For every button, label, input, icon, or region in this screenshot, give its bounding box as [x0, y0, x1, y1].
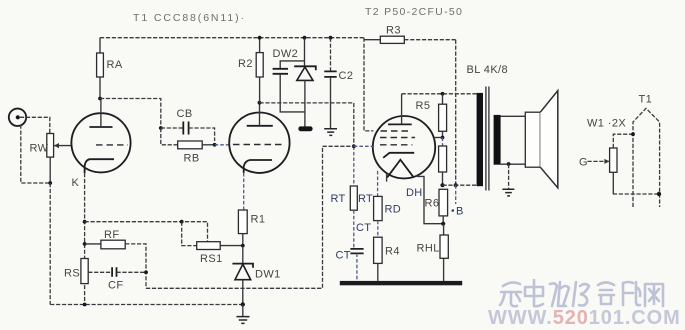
chassis rail	[340, 281, 462, 285]
wire cathode to RS1	[85, 222, 208, 242]
svg-text:BL 4K/8: BL 4K/8	[467, 64, 509, 76]
wire V3 plate to OPT primary	[402, 93, 477, 95]
wire B+ node to primary bottom	[443, 184, 477, 186]
wire B stub	[455, 185, 457, 204]
node B+	[440, 183, 444, 187]
zener DW2 with parallel cap	[273, 36, 316, 127]
svg-text:G: G	[579, 157, 588, 169]
resistor RB	[161, 128, 215, 165]
svg-text:R1: R1	[251, 214, 266, 226]
wire RS1 left lead	[182, 222, 197, 246]
resistor RF	[85, 229, 126, 249]
transformer core	[486, 87, 489, 191]
node V2 grid	[213, 143, 217, 147]
capacitor CF	[88, 267, 146, 291]
node K/RS1 branch	[83, 220, 87, 224]
svg-text:CT: CT	[356, 222, 371, 234]
wire g2 to divider	[434, 137, 443, 139]
heater winding T1	[633, 94, 660, 208]
svg-text:T1 CCC88(6N11)·: T1 CCC88(6N11)·	[133, 12, 246, 24]
B+ bus top	[100, 37, 364, 39]
ground C2	[324, 129, 337, 136]
svg-text:R4: R4	[385, 246, 400, 258]
node heater bottom	[657, 192, 661, 196]
resistor RA	[97, 38, 123, 99]
svg-text:DH: DH	[406, 187, 423, 199]
wire left riser to bottom rail	[49, 183, 51, 305]
svg-text:RS: RS	[64, 268, 80, 280]
svg-text:R2: R2	[238, 58, 253, 70]
resistor R5	[416, 94, 447, 138]
svg-text:K: K	[72, 177, 80, 189]
resistor R6	[425, 189, 448, 223]
input jack J1	[9, 109, 26, 126]
wire RW wiper to V1 grid	[54, 143, 72, 148]
resistor R3	[364, 25, 456, 44]
svg-text:CT: CT	[336, 250, 351, 262]
wire V1 anode to coupling	[100, 99, 161, 129]
svg-text:RF: RF	[104, 229, 119, 241]
node secondary ground	[507, 162, 511, 166]
svg-text:R6: R6	[425, 198, 440, 210]
resistor R2	[238, 36, 263, 103]
resistor R4	[374, 221, 400, 281]
ground main	[236, 305, 249, 324]
svg-text:T2 P50-2CFU-50: T2 P50-2CFU-50	[365, 6, 463, 18]
wire K cathode column	[84, 173, 86, 305]
svg-text:RB: RB	[184, 153, 200, 165]
svg-text:RW: RW	[30, 143, 49, 155]
wire grid entry	[354, 145, 373, 147]
label +B	[452, 206, 464, 218]
pentode V3 output tube	[373, 94, 443, 224]
wire heater bottom	[613, 193, 660, 195]
svg-text:B: B	[456, 206, 464, 218]
node RS1 left branch	[180, 220, 184, 224]
ground blob DW2	[298, 126, 312, 131]
wire secondary to speaker	[501, 116, 526, 164]
feedback wire to V3 grid	[146, 146, 354, 288]
wire jack ground side	[21, 125, 50, 183]
resistor RS1	[197, 242, 243, 265]
node main ground	[241, 302, 245, 306]
node plate line	[441, 92, 445, 96]
svg-text:R3: R3	[386, 25, 401, 37]
wire screen feed from bus	[364, 38, 373, 131]
svg-text:W1 ·2X: W1 ·2X	[587, 118, 626, 130]
capacitor CB	[161, 108, 215, 141]
svg-text:CF: CF	[108, 280, 123, 292]
node RW/ground	[48, 181, 52, 185]
node cathode/R6	[441, 222, 445, 226]
watermark calligraphy	[500, 280, 663, 306]
svg-text:RA: RA	[107, 59, 123, 71]
node V2 anode	[258, 101, 262, 105]
node R1/DW1	[241, 244, 245, 248]
svg-text:DW1: DW1	[255, 269, 281, 281]
svg-text:RT: RT	[331, 193, 346, 205]
node K rail	[83, 303, 87, 307]
zener DW1	[232, 246, 280, 305]
node CF/feedback	[144, 270, 148, 274]
wire RW bottom	[49, 157, 51, 183]
resistor RT	[331, 146, 374, 210]
svg-text:CB: CB	[177, 108, 193, 120]
resistor RD	[374, 196, 401, 220]
resistor RHL	[417, 224, 449, 281]
svg-text:T1: T1	[639, 94, 653, 106]
node K/RF	[83, 242, 87, 246]
svg-text:DW2: DW2	[273, 48, 299, 60]
capacitor CT	[336, 210, 372, 281]
potentiometer RW	[30, 134, 54, 158]
speaker BL	[525, 91, 558, 188]
wire jack to RW top	[20, 117, 50, 133]
svg-text:RHL: RHL	[417, 243, 440, 255]
transformer secondary	[494, 115, 501, 165]
output transformer BL primary	[477, 93, 483, 186]
svg-text:R5: R5	[416, 100, 431, 112]
ground secondary	[502, 164, 514, 196]
wire RF to feedback corner	[125, 244, 146, 288]
hum pot W1	[587, 118, 635, 195]
wire B+ drop from R3	[455, 40, 457, 186]
svg-text:RT: RT	[358, 193, 373, 205]
node CB/RB left	[159, 126, 163, 130]
svg-text:RD: RD	[385, 204, 402, 216]
wire V2 anode to V3 grid node	[260, 103, 354, 146]
node V3 grid	[352, 144, 356, 148]
wire G to W1 wiper	[579, 157, 610, 169]
capacitor C2	[324, 36, 353, 129]
wire bottom ground rail	[50, 304, 243, 306]
triode V1 (1/2 6N11)	[71, 99, 130, 174]
node V1 anode	[98, 97, 102, 101]
triode V2 (2/2 6N11)	[229, 103, 289, 173]
resistor RS	[64, 259, 88, 284]
resistor R1	[238, 173, 265, 246]
resistor R5b	[439, 138, 447, 186]
svg-text:WWW.520101.COM: WWW.520101.COM	[488, 307, 681, 329]
svg-text:RS1: RS1	[200, 253, 223, 265]
svg-text:C2: C2	[339, 70, 354, 82]
node screen tap	[441, 136, 445, 140]
wire to V2 grid	[215, 144, 230, 146]
